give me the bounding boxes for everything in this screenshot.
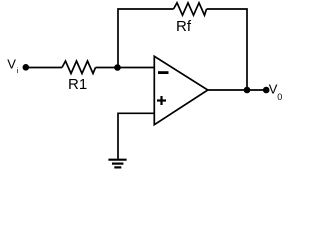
- svg-text:Rf: Rf: [176, 18, 192, 35]
- svg-text:i: i: [17, 66, 19, 75]
- svg-text:V: V: [7, 56, 16, 71]
- svg-text:R1: R1: [68, 76, 87, 93]
- svg-text:0: 0: [277, 92, 282, 102]
